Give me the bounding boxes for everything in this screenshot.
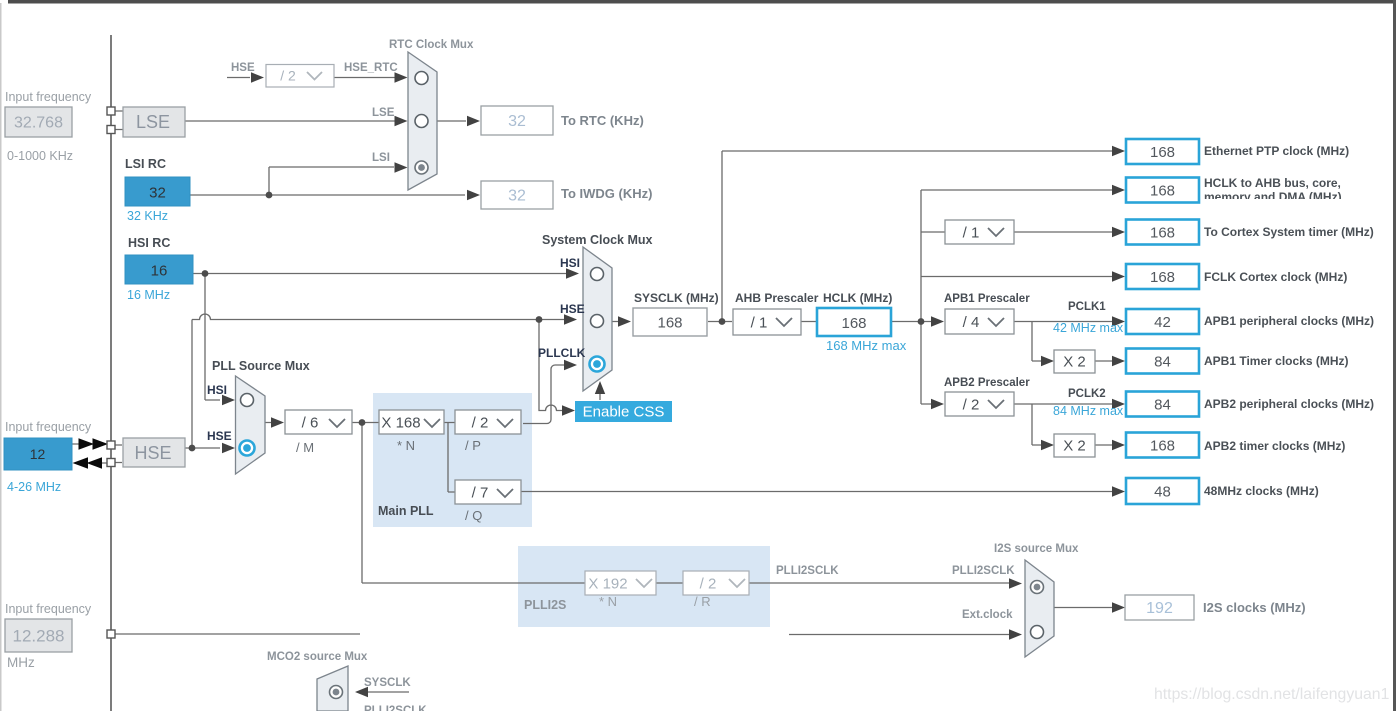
svg-text:I2S source Mux: I2S source Mux <box>994 543 1079 555</box>
svg-text:I2S clocks (MHz): I2S clocks (MHz) <box>1203 600 1306 615</box>
svg-text:/ M: / M <box>296 440 314 455</box>
svg-text:X 192: X 192 <box>588 576 627 593</box>
svg-text:Input frequency: Input frequency <box>5 90 92 104</box>
svg-text:PCLK1: PCLK1 <box>1068 301 1106 313</box>
svg-text:X 2: X 2 <box>1063 438 1086 455</box>
svg-text:84 MHz max: 84 MHz max <box>1053 404 1124 418</box>
svg-text:HCLK to AHB bus, core,: HCLK to AHB bus, core, <box>1204 176 1341 190</box>
svg-text:/ Q: / Q <box>465 508 482 523</box>
svg-text:APB2 Prescaler: APB2 Prescaler <box>944 377 1030 389</box>
svg-text:16 MHz: 16 MHz <box>127 288 170 302</box>
svg-text:/ 1: / 1 <box>963 225 980 242</box>
svg-text:PLLI2S: PLLI2S <box>524 598 566 612</box>
svg-text:MCO2 source Mux: MCO2 source Mux <box>267 651 368 663</box>
svg-text:Ethernet PTP clock (MHz): Ethernet PTP clock (MHz) <box>1204 144 1349 158</box>
svg-text:PLLCLK: PLLCLK <box>538 346 586 360</box>
svg-text:LSE: LSE <box>136 112 170 132</box>
svg-text:168 MHz max: 168 MHz max <box>826 338 907 353</box>
svg-text:HSE: HSE <box>134 443 171 463</box>
svg-text:X 2: X 2 <box>1063 354 1086 371</box>
svg-text:APB1 peripheral clocks (MHz): APB1 peripheral clocks (MHz) <box>1204 314 1374 328</box>
svg-text:APB2 peripheral clocks (MHz): APB2 peripheral clocks (MHz) <box>1204 397 1374 411</box>
svg-text:MHz: MHz <box>7 655 35 670</box>
svg-text:4-26 MHz: 4-26 MHz <box>7 480 61 494</box>
svg-text:APB1 Prescaler: APB1 Prescaler <box>944 293 1030 305</box>
svg-text:HSE: HSE <box>207 429 232 443</box>
svg-text:PLLI2SCLK: PLLI2SCLK <box>952 565 1015 577</box>
svg-text:192: 192 <box>1146 600 1173 617</box>
svg-text:X 168: X 168 <box>381 415 420 432</box>
svg-text:/ 6: / 6 <box>302 415 319 432</box>
svg-text:HSI RC: HSI RC <box>128 236 170 250</box>
svg-text:42 MHz max: 42 MHz max <box>1053 321 1124 335</box>
svg-text:Input frequency: Input frequency <box>5 420 92 434</box>
svg-text:16: 16 <box>151 263 168 280</box>
svg-text:0-1000 KHz: 0-1000 KHz <box>7 149 73 163</box>
svg-text:Enable CSS: Enable CSS <box>583 404 665 421</box>
svg-text:Input frequency: Input frequency <box>5 602 92 616</box>
svg-text:RTC Clock Mux: RTC Clock Mux <box>389 39 474 51</box>
svg-text:AHB Prescaler: AHB Prescaler <box>735 291 819 305</box>
svg-text:HSE: HSE <box>560 302 585 316</box>
svg-text:https://blog.csdn.net/laifengy: https://blog.csdn.net/laifengyuan1 <box>1154 686 1390 703</box>
svg-text:168: 168 <box>1150 438 1175 455</box>
svg-text:12: 12 <box>30 446 46 462</box>
svg-text:System Clock Mux: System Clock Mux <box>542 233 653 247</box>
svg-text:168: 168 <box>1150 144 1175 161</box>
svg-text:PLLI2SCLK: PLLI2SCLK <box>364 705 427 711</box>
svg-text:* N: * N <box>397 438 415 453</box>
svg-text:LSI: LSI <box>372 152 390 164</box>
svg-text:48: 48 <box>1154 484 1171 501</box>
svg-text:To IWDG (KHz): To IWDG (KHz) <box>561 186 652 201</box>
svg-text:168: 168 <box>1150 225 1175 242</box>
svg-text:To Cortex System timer (MHz): To Cortex System timer (MHz) <box>1204 225 1374 239</box>
svg-text:APB1 Timer clocks (MHz): APB1 Timer clocks (MHz) <box>1204 354 1349 368</box>
svg-text:32: 32 <box>149 185 166 202</box>
svg-text:PLLI2SCLK: PLLI2SCLK <box>776 565 839 577</box>
svg-text:SYSCLK: SYSCLK <box>364 677 411 689</box>
svg-text:APB2 timer clocks (MHz): APB2 timer clocks (MHz) <box>1204 439 1345 453</box>
svg-text:/ 4: / 4 <box>963 314 980 331</box>
svg-text:/ 2: / 2 <box>280 68 296 84</box>
svg-text:PCLK2: PCLK2 <box>1068 388 1106 400</box>
svg-text:FCLK Cortex clock (MHz): FCLK Cortex clock (MHz) <box>1204 270 1347 284</box>
svg-text:To RTC (KHz): To RTC (KHz) <box>561 113 644 128</box>
svg-text:84: 84 <box>1154 354 1171 371</box>
svg-text:* N: * N <box>599 594 617 609</box>
svg-text:32 KHz: 32 KHz <box>127 209 168 223</box>
svg-text:SYSCLK (MHz): SYSCLK (MHz) <box>634 291 719 305</box>
svg-text:/ 7: / 7 <box>472 485 489 502</box>
svg-text:HSI: HSI <box>207 383 227 397</box>
svg-text:HSE: HSE <box>231 62 255 74</box>
svg-text:168: 168 <box>841 315 866 332</box>
svg-text:168: 168 <box>1150 183 1175 200</box>
svg-text:HSE_RTC: HSE_RTC <box>344 62 398 74</box>
svg-text:Ext.clock: Ext.clock <box>962 609 1013 621</box>
svg-text:/ 2: / 2 <box>472 415 489 432</box>
svg-text:42: 42 <box>1154 314 1171 331</box>
svg-text:32.768: 32.768 <box>14 115 63 132</box>
svg-text:LSE: LSE <box>372 107 395 119</box>
svg-text:/ 2: / 2 <box>963 397 980 414</box>
svg-text:168: 168 <box>1150 269 1175 286</box>
svg-text:48MHz clocks (MHz): 48MHz clocks (MHz) <box>1204 484 1319 498</box>
svg-text:PLL Source Mux: PLL Source Mux <box>212 359 310 373</box>
svg-text:84: 84 <box>1154 397 1171 414</box>
svg-text:32: 32 <box>508 113 526 130</box>
svg-text:HCLK (MHz): HCLK (MHz) <box>823 291 892 305</box>
svg-text:/ 1: / 1 <box>751 315 768 332</box>
svg-text:32: 32 <box>508 188 526 205</box>
svg-text:HSI: HSI <box>560 256 580 270</box>
svg-text:168: 168 <box>657 315 682 332</box>
svg-text:12.288: 12.288 <box>13 627 65 646</box>
svg-text:/ P: / P <box>465 438 481 453</box>
svg-text:/ R: / R <box>694 594 711 609</box>
svg-text:LSI RC: LSI RC <box>125 157 166 171</box>
svg-text:Main PLL: Main PLL <box>378 504 434 518</box>
svg-text:/ 2: / 2 <box>700 576 717 593</box>
